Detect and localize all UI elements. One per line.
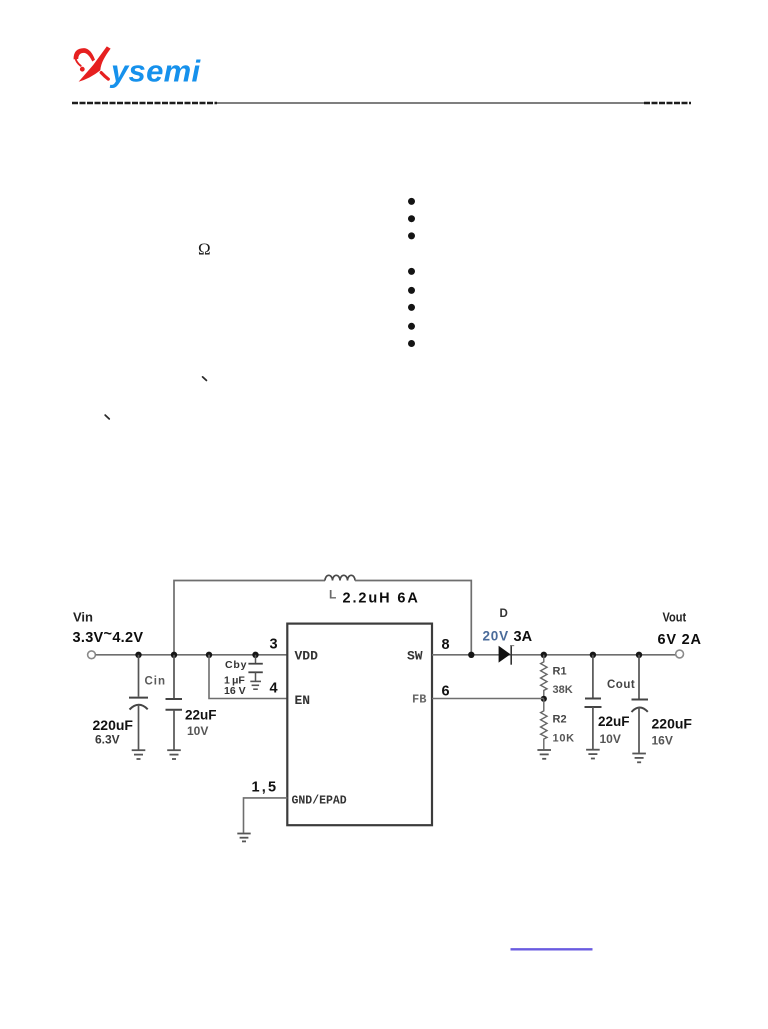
capacitor Cout 22uF upper wire [592,655,594,699]
svg-text:Vout: Vout [663,610,687,625]
backtick mark upper [203,377,207,381]
node junction EN drop [206,652,212,658]
capacitor C220 upper wire [638,655,640,699]
bullet 2 [408,215,415,222]
resistor R1 [541,655,547,699]
capacitor Cout 22uF lower wire [592,707,594,749]
output terminal circle [676,650,684,658]
ground C220 [632,754,646,763]
svg-text:Cby: Cby [225,659,247,671]
wire GND/EPAD [244,798,288,833]
capacitor Cby [255,655,257,663]
bullet 1 [408,198,415,205]
ground R2 [537,750,551,759]
svg-text:R1: R1 [553,666,567,678]
svg-text:220uF: 220uF [652,716,693,732]
svg-text:10V: 10V [187,724,208,738]
wire top horizontal left of inductor [174,581,325,655]
svg-text:ysemi: ysemi [109,54,201,89]
logo orbit thick top-left arc [74,48,95,61]
diode D [499,646,511,663]
node junction C220 out [636,652,642,658]
bullet 3 [408,232,415,239]
svg-text:VDD: VDD [295,649,319,664]
ground C2 [167,750,181,759]
wire top horizontal right of inductor [355,581,471,655]
node junction C2 [171,652,177,658]
svg-text:1,5: 1,5 [252,780,279,796]
svg-text:220uF: 220uF [93,717,134,733]
wire SW output [432,654,676,656]
capacitor C220 lower wire [638,707,640,753]
svg-text:Cout: Cout [607,679,635,691]
svg-text:22uF: 22uF [185,708,217,723]
svg-text:2.2uH 6A: 2.2uH 6A [343,591,420,607]
node junction SW top [468,652,474,658]
node junction FB [541,696,547,702]
node junction Cby [252,652,258,658]
ground Cin [132,750,146,759]
svg-text:Cin: Cin [145,676,167,688]
node junction Cout22 [590,652,596,658]
ground Cby [250,681,261,689]
svg-text:Ω: Ω [198,239,211,258]
svg-text:6: 6 [442,684,450,700]
logo orbit thin left arc [76,58,81,66]
svg-text:SW: SW [407,649,423,664]
svg-text:D: D [500,608,508,620]
input terminal circle [88,651,96,659]
svg-text:16 V: 16 V [224,685,246,697]
svg-text:FB: FB [412,693,426,707]
node junction Cin [135,652,141,658]
header rule thin middle segment [217,102,644,104]
wire FB [432,698,544,700]
inductor L [325,575,355,580]
footer link rule [511,948,593,950]
svg-text:22uF: 22uF [598,714,630,729]
svg-text:3: 3 [270,637,278,653]
capacitor Cout 22uF plates [585,698,601,700]
header rule dashed right segment [644,102,691,105]
bullet 7 [408,323,415,330]
svg-text:10K: 10K [553,733,575,745]
capacitor C2 plates [166,698,183,700]
logo orbit bottom-right arc [101,73,108,80]
svg-text:GND/EPAD: GND/EPAD [292,795,347,808]
capacitor C2 lower wire [173,710,175,750]
svg-text:L: L [329,588,336,602]
svg-text:16V: 16V [652,734,673,748]
op-amp IC box U1 [287,624,432,826]
svg-text:R2: R2 [553,714,567,726]
node junction R1 top [541,652,547,658]
bullet 8 [408,340,415,347]
svg-text:8: 8 [442,637,450,653]
svg-text:38K: 38K [553,684,573,696]
ground Cout22 [586,750,600,759]
svg-text:EN: EN [295,693,311,708]
backtick mark lower [105,415,109,419]
capacitor Cin lower wire [138,705,140,750]
wire Vin main horizontal [96,654,288,656]
capacitor Cin plates [129,697,148,699]
wire EN [209,655,287,699]
svg-text:Vin: Vin [73,610,93,625]
svg-text:3A: 3A [514,629,533,645]
svg-text:10V: 10V [600,732,621,746]
ground EPAD [237,834,250,842]
capacitor C2 22uF upper wire [173,655,175,699]
bullet 6 [408,304,415,311]
header rule dashed left segment [72,102,217,105]
logo orbit dot [80,67,85,72]
svg-text:6.3V: 6.3V [95,733,120,747]
bullet 5 [408,287,415,294]
svg-text:4: 4 [270,681,278,697]
svg-text:20V: 20V [483,629,509,644]
svg-text:6V 2A: 6V 2A [658,632,702,648]
svg-text:3.3V~4.2V: 3.3V~4.2V [73,626,144,646]
capacitor Cin wire [138,655,140,697]
resistor R2 [541,699,547,750]
bullet 4 [408,268,415,275]
logo Xysemi red X check stroke [79,46,111,81]
capacitor C220 plates [632,699,649,701]
